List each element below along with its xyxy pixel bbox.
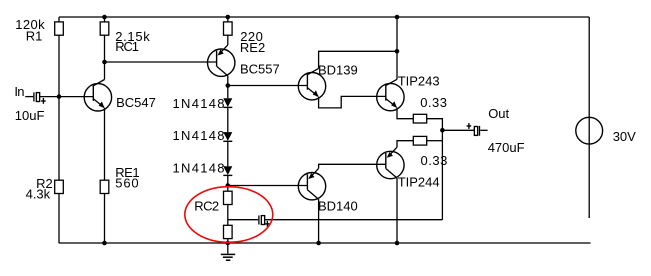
node top rail / RC1 — [102, 15, 107, 20]
diode D3 1N4148 — [223, 166, 232, 175]
node rail / RC2 ground — [226, 241, 231, 246]
node RC1 / BC557 base branch — [102, 60, 107, 65]
svg-text:In: In — [14, 84, 24, 99]
node BC557 collector / BD139 base — [226, 83, 231, 88]
wire TIP243 emitter to 0.33 — [397, 108, 413, 119]
transistor Q1 BC547 — [84, 80, 111, 112]
resistor RE2 220 — [224, 22, 233, 35]
wire bottom rail — [59, 242, 591, 244]
svg-text:BD140: BD140 — [318, 199, 358, 214]
resistor R1 — [55, 22, 64, 35]
wire out stub — [480, 129, 487, 131]
capacitor 470uF — [467, 123, 480, 136]
resistor R2 — [55, 180, 64, 193]
wire R1 bottom to R2 — [58, 35, 60, 180]
resistor RE1 — [100, 180, 109, 193]
ground — [221, 243, 235, 260]
wire RC1 top lead — [104, 17, 106, 22]
wire RC2 middle — [227, 205, 229, 226]
resistor 0.33 upper — [413, 114, 426, 123]
wire TIP244 emitter to 0.33 lower — [397, 141, 413, 148]
wire top rail — [59, 16, 589, 18]
svg-text:BC547: BC547 — [116, 95, 156, 110]
wire BC547 emitter to RE1 — [104, 108, 106, 180]
capacitor bootstrap — [259, 215, 270, 226]
svg-text:TIP244: TIP244 — [398, 174, 440, 189]
node In junction — [57, 94, 62, 99]
wire TIP243 collector to top rail — [396, 17, 398, 79]
node BD139 collector / TIP243 — [395, 49, 400, 54]
resistor 0.33 lower — [413, 136, 426, 145]
wire In cap to BC547 base — [40, 96, 93, 98]
capacitor 10uF — [34, 92, 46, 103]
wire cap to output node — [265, 219, 442, 221]
diode D2 1N4148 — [223, 132, 232, 141]
wire BD139 emitter jog to TIP243 base — [319, 96, 386, 108]
resistor RC2 lower — [224, 225, 233, 238]
diode D1 1N4148 — [223, 98, 232, 107]
highlight ellipse around RC2 — [185, 187, 273, 243]
svg-text:470uF: 470uF — [488, 140, 525, 155]
wire R2 bottom to rail — [58, 194, 60, 244]
wire BD139 collector up and right — [319, 51, 397, 68]
svg-text:10uF: 10uF — [15, 108, 45, 123]
svg-text:1N4148: 1N4148 — [173, 96, 226, 111]
node top rail / TIP243 collector — [395, 15, 400, 20]
svg-text:0.33: 0.33 — [420, 95, 447, 110]
svg-text:1N4148: 1N4148 — [173, 160, 226, 175]
svg-text:Out: Out — [488, 106, 509, 121]
svg-text:0.33: 0.33 — [421, 153, 448, 168]
wire RE2 bottom to BC557 emitter — [227, 35, 229, 45]
source V1 30V — [576, 17, 603, 218]
wire D3 to RC2 — [227, 175, 229, 191]
wire BD140 collector to rail — [318, 199, 320, 243]
wire RC1 bottom to BC547 collector — [104, 35, 106, 79]
wire D2 to D3 — [227, 141, 229, 166]
wire RE2 top lead — [227, 17, 229, 22]
wire 0.33 lower to output line — [427, 140, 443, 142]
wire output node to cap — [442, 129, 474, 131]
wire R1 top lead — [58, 17, 60, 22]
wire BD140 emitter up to TIP244 base — [319, 164, 386, 168]
wire TIP244 collector to rail — [396, 178, 398, 243]
node rail / BD140 — [316, 241, 321, 246]
resistor RC2 upper — [224, 191, 233, 204]
wire D1 to D2 — [227, 107, 229, 132]
svg-text:RC2: RC2 — [194, 198, 219, 213]
wire In lead — [25, 96, 33, 98]
resistor RC1 — [100, 22, 109, 35]
svg-text:R1: R1 — [26, 28, 43, 43]
transistor Q5 TIP243 — [377, 79, 404, 111]
svg-text:RE2: RE2 — [240, 40, 265, 55]
svg-text:RC1: RC1 — [115, 39, 139, 54]
wire RE1 bottom to rail — [104, 194, 106, 244]
transistor Q2 BC557 — [208, 45, 235, 77]
svg-text:TIP243: TIP243 — [398, 73, 440, 88]
wire RC2 lower to rail — [227, 239, 229, 243]
wire BC557 collector down — [227, 76, 229, 99]
node top rail / RE2 — [226, 15, 231, 20]
node output — [440, 128, 445, 133]
transistor Q6 TIP244 — [377, 147, 404, 179]
svg-text:560: 560 — [115, 176, 139, 191]
svg-text:BD139: BD139 — [318, 62, 358, 77]
svg-text:BC557: BC557 — [240, 62, 280, 77]
svg-text:30V: 30V — [613, 129, 636, 144]
wire RC2 mid branch to cap — [228, 219, 258, 221]
wire BD140 base — [228, 185, 308, 187]
wire BC557 base — [105, 61, 217, 63]
wire BD139 base — [228, 85, 308, 87]
wire 0.33 upper to output node — [427, 119, 443, 220]
node rail / RE1 — [102, 241, 107, 246]
node rail / TIP244 — [395, 241, 400, 246]
transistor Q4 BD140 — [298, 168, 325, 200]
svg-text:1N4148: 1N4148 — [173, 128, 226, 143]
node D3 / BD140 base — [226, 183, 231, 188]
transistor Q3 BD139 — [298, 68, 325, 100]
svg-text:4.3k: 4.3k — [26, 187, 51, 202]
